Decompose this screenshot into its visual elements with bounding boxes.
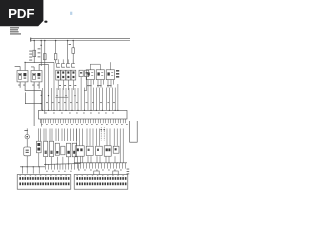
wire	[117, 84, 119, 110]
sensor G1	[37, 141, 42, 153]
bus left terminal	[30, 38, 32, 42]
wire below fuse F4	[72, 53, 74, 63]
ground stub ticks	[46, 164, 79, 169]
ground junction dots	[22, 166, 40, 167]
ground bus (right)	[74, 162, 127, 164]
micro-relay bank K3-K6	[56, 70, 76, 80]
wire drop 6	[72, 41, 74, 48]
PDF badge (document type flag)	[0, 0, 48, 26]
tick labels (left)	[46, 170, 72, 173]
ground stubs	[22, 167, 39, 174]
wire to relay K1	[15, 62, 26, 70]
ground junction dots	[45, 163, 69, 165]
pin labels	[87, 84, 112, 87]
node dot	[41, 95, 42, 96]
page number mark (blue)	[70, 12, 72, 15]
relay K8 pins	[98, 80, 103, 88]
wire harness bundle (lower left)	[44, 129, 77, 142]
relay K9 pins	[108, 80, 113, 88]
fuse F3	[54, 54, 57, 60]
relay K8	[96, 70, 104, 80]
terminal strip X2 (left)	[17, 175, 71, 190]
motor M2	[72, 143, 76, 157]
wire	[26, 139, 28, 147]
wire below fuse F3	[55, 60, 57, 64]
relay K9	[106, 70, 114, 80]
wire	[25, 92, 41, 103]
wire	[80, 77, 82, 111]
pin number labels	[41, 123, 128, 126]
ground junction dots	[80, 162, 118, 163]
bus junction dots	[33, 40, 73, 42]
wire harness bundle (center)	[43, 62, 79, 110]
wire drop 4	[55, 41, 57, 54]
labels	[38, 48, 41, 57]
fuse rating labels	[29, 51, 32, 61]
antenna frame W1	[130, 121, 138, 142]
bar junction dots	[42, 110, 119, 111]
wire drop 3	[44, 41, 46, 114]
relay K2 pins	[34, 82, 39, 89]
wire	[26, 156, 28, 167]
power bus B+ (double line)	[31, 39, 130, 41]
relay bank pins	[58, 80, 73, 90]
connector stack X5	[116, 70, 119, 78]
wire	[120, 129, 123, 163]
diode box D2	[85, 70, 89, 76]
wire harness bundle (lower right)	[77, 129, 118, 146]
wire drop 1	[33, 41, 35, 64]
switch S4	[61, 146, 65, 155]
switch S2	[24, 147, 31, 156]
fuse F4	[72, 48, 75, 54]
wire to relay K2	[31, 64, 48, 70]
title text block	[10, 27, 21, 34]
node dot	[40, 44, 42, 46]
junction dots	[48, 95, 76, 96]
wire jog	[25, 88, 41, 111]
pin number labels inside bar	[45, 112, 114, 115]
terminal strip X3 (right)	[74, 175, 128, 190]
resistor block R1	[44, 141, 48, 156]
connector bar pins	[41, 119, 126, 123]
wire link	[25, 61, 54, 63]
lamp L1	[25, 135, 29, 139]
wire harness bundle (right)	[85, 88, 116, 111]
pin labels	[18, 84, 39, 87]
actuator A2	[86, 146, 93, 155]
twin wire pair	[39, 128, 41, 141]
relay K1	[17, 71, 28, 82]
relay top link wire	[90, 64, 100, 70]
resistor block R2	[49, 141, 53, 156]
relay K2	[31, 71, 42, 82]
switch S3	[55, 143, 59, 155]
diode box D1	[79, 70, 83, 76]
fuse F2	[44, 54, 47, 60]
connector stub bracket	[94, 171, 99, 175]
ground bus (center)	[44, 163, 80, 166]
component bottom wires	[39, 153, 75, 167]
wire jog	[84, 77, 87, 91]
relay K1 pins	[20, 82, 25, 88]
connector bar X1 (long)	[39, 110, 128, 119]
node dot	[41, 103, 42, 104]
wire	[33, 89, 35, 126]
ground bus (left)	[20, 166, 45, 168]
wire	[109, 62, 111, 70]
label stack	[127, 169, 130, 175]
relay K7 pins	[88, 80, 93, 88]
pin labels	[59, 84, 76, 87]
motor M1	[66, 143, 70, 157]
connector caps row	[57, 64, 75, 68]
node dot	[24, 62, 25, 63]
wire	[26, 128, 28, 134]
actuator A1	[75, 146, 84, 156]
fuse label	[69, 43, 71, 46]
fuse F1	[33, 50, 36, 57]
ground stub ticks	[78, 163, 126, 169]
lamp label	[24, 129, 28, 132]
connector stub bracket	[113, 171, 118, 175]
sensor G2	[113, 146, 119, 153]
wire drop 5	[67, 41, 69, 64]
tick labels	[78, 169, 122, 172]
svg-text:PDF: PDF	[8, 6, 34, 21]
wire	[40, 119, 42, 127]
arrowheads	[100, 129, 105, 131]
wire ident labels	[46, 101, 115, 104]
cap feed wires	[58, 59, 73, 63]
actuator A4	[104, 146, 111, 156]
component bottom wires	[78, 156, 116, 163]
shielded wire pair (dotted)	[101, 127, 104, 140]
relay K7	[86, 70, 94, 80]
harness jog wire	[55, 96, 68, 98]
actuator A3	[96, 146, 103, 155]
wire drop 2	[40, 41, 42, 67]
